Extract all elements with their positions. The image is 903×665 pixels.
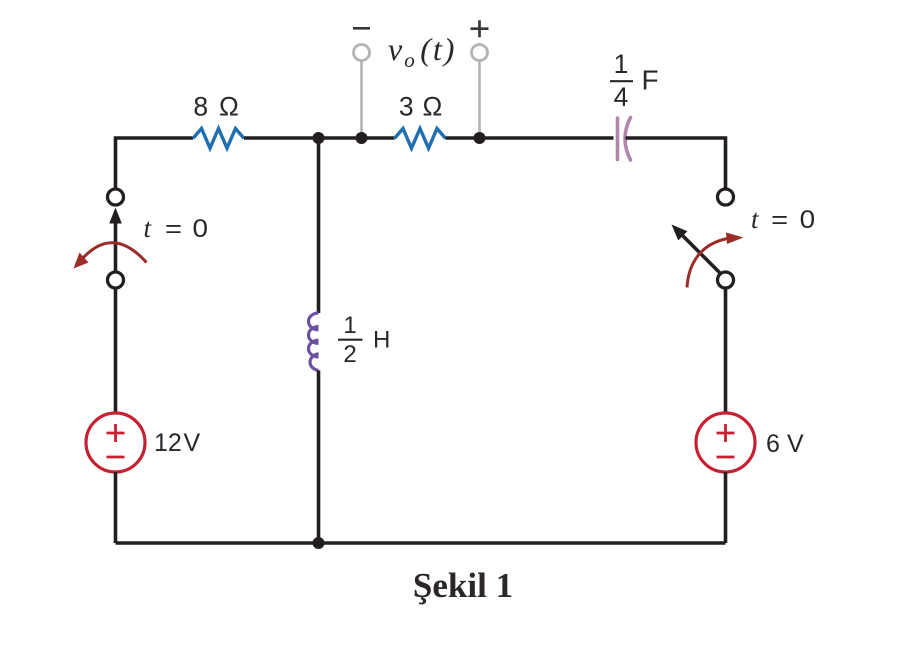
- left switch red arc: [83, 243, 147, 263]
- right switch red arc arrowhead: [726, 233, 744, 245]
- wire source to bottom-left corner: [114, 472, 118, 543]
- gray terminal minus lead: [354, 45, 370, 138]
- resistor 3 ohm: [395, 129, 446, 149]
- left switch blade: [114, 221, 118, 273]
- svg-text:vo(t): vo(t): [388, 31, 456, 72]
- svg-text:=: =: [771, 206, 788, 234]
- svg-text:6: 6: [766, 430, 780, 458]
- wire middle branch lower: [317, 370, 321, 543]
- right switch blade arrowhead: [672, 225, 688, 241]
- svg-text:8 Ω: 8 Ω: [193, 92, 240, 122]
- wire right switch to source: [724, 288, 728, 413]
- svg-text:F: F: [642, 65, 659, 96]
- wire middle branch upper: [317, 138, 321, 313]
- label 1/2 H: [338, 312, 390, 368]
- wire top-left segment: [116, 138, 194, 189]
- svg-text:0: 0: [800, 206, 816, 234]
- svg-text:H: H: [373, 327, 390, 354]
- svg-text:4: 4: [614, 82, 629, 112]
- wire left switch to source: [114, 288, 118, 413]
- svg-text:0: 0: [193, 215, 209, 243]
- minus sign above left terminal: [353, 27, 370, 30]
- left switch blade arrowhead: [109, 208, 122, 224]
- left switch lower terminal: [108, 272, 124, 288]
- svg-text:V: V: [787, 430, 804, 458]
- right switch upper terminal: [718, 189, 734, 205]
- right switch red arc: [687, 239, 728, 288]
- resistor 8 ohm: [193, 129, 244, 149]
- node dot bottom: [313, 537, 325, 549]
- svg-text:2: 2: [343, 341, 356, 368]
- wire bottom: [116, 541, 726, 545]
- svg-text:1: 1: [614, 49, 629, 79]
- wire capacitor to top-right corner, down to switch: [626, 138, 726, 189]
- svg-text:3 Ω: 3 Ω: [399, 92, 443, 122]
- svg-text:12: 12: [154, 429, 182, 457]
- svg-text:1: 1: [343, 312, 356, 339]
- capacitor 1/4 F: [618, 118, 631, 161]
- node dot A: [313, 132, 325, 144]
- svg-text:V: V: [184, 429, 201, 457]
- source 6 V: [696, 413, 755, 472]
- wire top middle segment: [244, 136, 395, 140]
- wire from 3 ohm to capacitor: [446, 136, 614, 140]
- svg-text:Şekil 1: Şekil 1: [413, 566, 513, 605]
- source 12 V: [86, 413, 145, 472]
- node dot B: [356, 132, 368, 144]
- right switch lower terminal: [718, 272, 734, 288]
- wire source to bottom-right corner: [724, 472, 728, 543]
- plus sign above right terminal: [471, 20, 489, 37]
- svg-text:=: =: [165, 215, 182, 243]
- gray terminal plus lead: [472, 45, 488, 138]
- node dot C: [474, 132, 486, 144]
- inductor 1/2 H: [309, 313, 319, 370]
- left switch red arc arrowhead: [74, 253, 89, 269]
- label 1/4 F: [610, 49, 659, 112]
- left switch upper terminal: [108, 189, 124, 205]
- right switch blade: [683, 236, 723, 276]
